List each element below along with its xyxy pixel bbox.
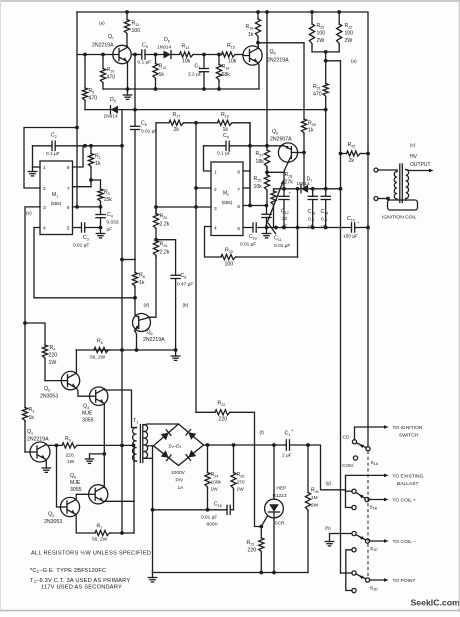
svg-text:R12: R12 [159,64,167,70]
wire Q4 emitter down [103,403,105,454]
svg-text:R6: R6 [65,436,71,442]
svg-text:1N914: 1N914 [104,114,118,120]
transistor Q5 MJE3055 [89,485,108,504]
wire R22b right down to gate [231,412,261,526]
svg-text:470: 470 [313,92,322,98]
wire D7 bus left segment [274,188,302,190]
svg-text:D5: D5 [110,97,116,103]
svg-text:1N914: 1N914 [297,181,310,186]
svg-text:R1: R1 [95,154,101,160]
svg-text:1: 1 [43,165,46,171]
svg-text:100: 100 [132,28,141,34]
svg-text:R13: R13 [182,44,190,50]
svg-text:4: 4 [214,226,217,232]
svg-text:T1–6.3V C.T. 3A USED AS PRIMAR: T1–6.3V C.T. 3A USED AS PRIMARY [30,578,130,584]
svg-text:Q7: Q7 [108,34,114,40]
svg-text:2N2219A: 2N2219A [143,337,165,343]
wire Q8 emitter down to ground bus [257,63,260,89]
svg-text:0.033: 0.033 [107,220,119,226]
resistor R27 18k [264,150,269,168]
svg-text:1W: 1W [237,487,245,493]
svg-text:56, 2W: 56, 2W [90,355,106,361]
wire Q6 collector to R19 [150,258,156,317]
svg-text:(a): (a) [99,21,105,26]
svg-text:C2: C2 [51,133,57,139]
svg-text:*: * [292,429,294,435]
resistor R23b 220 (gate) [260,527,262,539]
svg-text:0.01 µF: 0.01 µF [274,243,290,249]
svg-text:R1223: R1223 [273,493,287,499]
wire D6 to R13 [171,54,180,56]
diode D2 (bridge upper-left) [161,433,169,441]
resistor R7 56 2W [95,530,111,535]
wire Q5 collector entry [103,486,105,488]
capacitor C8 0.47uF [171,274,180,276]
diode D4 (bridge lower-left) [161,450,169,458]
svg-text:T1: T1 [133,418,138,424]
ground M1 pin 1 [32,167,34,172]
wire link to x=340.5 vertical [326,60,341,62]
switch S1C [365,539,369,543]
svg-text:1A: 1A [178,485,185,491]
wire to coil- arrow [370,540,385,542]
wire C5 to D6 [145,54,164,56]
svg-text:600V: 600V [207,522,219,528]
wire DC- rail y=509.8 [153,509,228,511]
svg-text:(f): (f) [260,430,265,435]
resistor R25 2k [341,153,347,155]
ground tap on Q4 emitter [90,454,105,459]
resistor R11 100 [126,12,128,20]
svg-text:470: 470 [107,75,116,81]
resistor R19 2.2k [153,241,158,257]
svg-text:R23: R23 [247,540,255,546]
svg-text:3: 3 [214,206,217,212]
wire M1 pin6 stub [73,206,101,208]
capacitor C13 0.1uF [312,189,314,197]
svg-text:100: 100 [345,31,354,37]
svg-text:2: 2 [43,186,46,192]
capacitor C1* 2uF [285,440,287,450]
wire C3 to C4 node [85,227,101,229]
resistor R23 100 [221,254,237,259]
svg-text:1k: 1k [248,32,254,38]
svg-text:R17: R17 [173,112,181,118]
svg-text:R16: R16 [246,24,254,30]
svg-text:1k: 1k [29,415,35,421]
svg-text:1W: 1W [49,360,57,366]
svg-text:1: 1 [214,170,217,176]
wire to coil+ arrow [369,499,385,501]
wire R4 to Q2 base [45,380,61,382]
svg-text:7: 7 [67,186,70,192]
svg-text:(c): (c) [410,143,416,148]
svg-text:TO EXISTING: TO EXISTING [393,474,424,480]
svg-text:S1A: S1A [371,460,379,466]
wire M2 pin2 net x=196 [195,123,197,413]
capacitor C15 150uF [351,223,353,232]
svg-text:C7: C7 [195,64,201,70]
wire Q9 collector drop [283,170,285,189]
svg-text:68k: 68k [222,72,231,78]
svg-text:R5: R5 [97,339,103,345]
svg-text:0.47 µF: 0.47 µF [177,282,193,288]
svg-text:S1B: S1B [370,505,378,511]
resistor R21 470 [325,61,327,84]
wire C2 left to M1 pin1/ground [32,146,34,167]
resistor R22b 220 [215,410,231,415]
svg-text:(555): (555) [51,201,62,206]
svg-text:ALL RESISTORS ½W UNLESS SPECIF: ALL RESISTORS ½W UNLESS SPECIFIED [31,550,151,557]
wire long vertical x=122 [121,110,123,533]
wire R7 right to T1 primary bottom riser [111,532,135,534]
wire R8 bottom to Q6 base [134,298,136,314]
svg-text:TO COIL −: TO COIL − [393,539,417,545]
capacitor C5 0.1uF [131,54,142,56]
svg-text:R20: R20 [160,214,168,220]
svg-text:6: 6 [237,204,240,210]
svg-text:(g): (g) [326,481,332,486]
svg-text:2N2219A: 2N2219A [92,43,114,49]
svg-text:100k: 100k [211,480,222,486]
ignition coil terminal top [374,168,378,172]
svg-text:+: + [357,220,360,225]
wire Q9 base to R29 node [298,152,304,154]
svg-text:8: 8 [237,170,240,176]
svg-text:6: 6 [67,205,70,211]
wire T1 secondary tap to bridge left [147,445,154,447]
transistor Q4 MJE3055 [90,387,108,405]
wire Q8 collector [257,43,259,49]
svg-text:150 µF: 150 µF [343,234,358,240]
wire ground bus y=89 [103,88,259,90]
transistor Q8 2N2219A [243,46,262,65]
svg-text:1k: 1k [308,128,314,134]
svg-text:C11: C11 [274,236,282,242]
svg-text:R27: R27 [256,151,264,157]
diode D3 (bridge upper-right) [188,432,196,440]
wire M1 pin5 stub [73,227,82,229]
svg-text:R22: R22 [218,401,226,407]
svg-text:10k: 10k [182,59,191,65]
svg-text:MJE: MJE [82,411,93,417]
wire Q6 emitter bus / R5 run y=350 [76,349,176,351]
svg-text:0.1 µF: 0.1 µF [46,151,60,157]
svg-text:TO IGNITION: TO IGNITION [393,425,423,431]
ground Q6 emitter bus [175,350,177,356]
svg-text:5: 5 [237,226,240,232]
svg-text:R20: R20 [317,23,325,29]
svg-text:(h): (h) [325,526,331,531]
wire C1 right / corner to (g) [290,445,346,490]
svg-text:R11: R11 [132,21,140,27]
resistor R6 220 1W [57,444,63,446]
wire Q4 collector to T1 primary top [105,389,135,428]
wire to point arrow [370,579,385,581]
svg-text:0.1: 0.1 [308,217,315,223]
transistor Q7 2N2219A [113,45,131,63]
resistor R10 470 [102,55,104,69]
wire M2 pin7 stub [243,187,250,189]
svg-text:2: 2 [214,187,217,193]
label C11 with leader [269,224,276,234]
svg-text:2N3053: 2N3053 [44,519,62,525]
wire M1 pin8 stub [73,146,84,167]
wire Q8 collector node to R29 [258,42,304,44]
svg-text:SCR: SCR [275,521,286,527]
wire DC+ bus [204,444,287,446]
svg-text:C1: C1 [285,431,291,437]
svg-text:SeekIC.com: SeekIC.com [411,598,460,608]
svg-text:(e): (e) [26,211,32,216]
wire R6 right run [78,444,134,446]
svg-text:117V USED AS SECONDARY: 117V USED AS SECONDARY [41,585,122,591]
wire R18 to M2 pin8 riser [233,123,250,206]
wire R27/R26 node to collector drop [267,171,284,173]
svg-text:10k: 10k [228,59,237,65]
svg-text:C8: C8 [181,273,187,279]
wire M2 V+ vertical x=267 from top bus [266,12,268,150]
svg-text:R7: R7 [97,524,103,530]
capacitor C16 0.01uF 600V [226,505,228,514]
svg-text:C4: C4 [107,212,113,218]
svg-text:C6: C6 [141,121,147,127]
diode D6 1N914 [164,51,172,59]
svg-text:1k: 1k [139,280,145,286]
capacitor C4 0.033uF [100,207,102,215]
svg-text:220: 220 [49,353,58,359]
wire M1 V+ node y=145.8 [55,145,122,147]
svg-text:0.01 µF: 0.01 µF [201,515,217,521]
svg-text:CD: CD [343,435,350,441]
svg-text:TO POINT: TO POINT [393,578,416,584]
svg-text:D₂–D₅: D₂–D₅ [169,444,182,449]
transformer T1 primary winding [133,427,137,461]
svg-text:220: 220 [248,548,257,554]
svg-text:1k: 1k [159,72,165,78]
svg-text:Q9: Q9 [272,129,278,135]
wire Q1 base [25,451,30,453]
resistor R8 1k [134,260,136,273]
svg-text:M2: M2 [223,191,229,197]
capacitor C14 0.1uF [325,189,327,197]
wire M2 pin8 stub [243,170,250,172]
wire R15 to Q8 base [236,54,243,56]
svg-text:Q6: Q6 [147,330,153,336]
wire R17 to R18 [185,122,218,124]
svg-text:R10: R10 [107,67,115,73]
resistor R2 15k [98,189,103,202]
svg-text:10k: 10k [254,184,263,190]
junction dots M1 area [83,144,87,148]
wire jog x=122 to R8 [122,259,135,261]
resistor R13 10k [180,52,195,57]
resistor R26 270 1W [233,445,235,473]
svg-text:S1C: S1C [370,546,378,552]
wire pin5 bus [256,227,351,229]
capacitor C9 0.1uF [225,141,227,150]
svg-text:Q5: Q5 [70,473,76,479]
svg-text:270: 270 [237,480,245,486]
wire Q3 emitter to R7 [76,514,95,533]
svg-text:1000V: 1000V [171,470,186,476]
wire R23 to x=297.5 riser [237,256,298,258]
svg-text:5: 5 [67,226,70,232]
ground pin5 bus [266,228,268,234]
wire bottom ground bus [153,572,309,574]
diode D7 1N914 [301,185,308,193]
svg-text:2W: 2W [311,503,319,509]
ignition coil body [388,200,418,210]
wire M2 pin6 stub [243,205,267,207]
wire C9 node [204,145,227,147]
capacitor C2 0.1uF [33,145,53,147]
svg-text:R26: R26 [254,176,262,182]
wire top supply bus [77,12,368,447]
wire gate node from R22 drop [196,411,215,413]
capacitor C11 0.01uF [266,206,268,215]
resistor R20 2.2k [155,207,157,214]
svg-text:15k: 15k [104,197,113,203]
svg-text:22: 22 [282,216,288,222]
svg-text:R2: R2 [104,190,110,196]
bridge rectifier D2-D5 outline [154,424,204,466]
svg-text:3055: 3055 [70,487,82,493]
resistor R1 1k [90,146,92,154]
svg-text:2 µF: 2 µF [282,453,292,459]
resistor R20 100 2W [311,12,313,24]
wire M2 pin1 riser to C9 [204,146,212,171]
capacitor C10 0.01uF [252,223,254,232]
wire Q1 collector to R6 [46,444,56,445]
wire x=135 from Q7/C5 node down through C6 [134,55,136,127]
svg-text:2.2k: 2.2k [160,250,170,256]
transistor Q1 2N2219A [30,442,50,462]
wire Q3 collector to Q5 base [76,494,88,499]
svg-text:PIV: PIV [176,478,185,484]
svg-text:R18: R18 [221,112,229,118]
transformer T1 secondary winding [144,425,148,459]
svg-text:1W: 1W [211,487,219,493]
svg-text:(a): (a) [351,59,357,64]
IC M2 555 timer [211,162,243,236]
svg-text:(555): (555) [222,200,233,205]
wire M2 pin3 stub [156,206,211,208]
svg-text:R28: R28 [285,172,293,178]
wire x=341 to S1D upper contact [341,572,352,574]
resistor R5 56 2W [94,347,110,352]
resistor R15 10k [222,52,237,57]
wire (h) ground branch [330,534,352,542]
wire R1 bottom jog to R2 [91,180,101,189]
wire Q2 collector to R5 [75,350,77,373]
svg-text:0.01 µF: 0.01 µF [73,243,89,249]
svg-text:R25: R25 [348,142,356,148]
svg-text:0.1: 0.1 [321,217,328,223]
svg-text:R23: R23 [225,248,233,254]
resistor R14 68k [218,55,220,65]
svg-text:C3: C3 [83,235,89,241]
svg-text:S1D: S1D [370,586,378,592]
wire R29 node down to D7 [303,153,305,187]
svg-text:TO COIL +: TO COIL + [393,498,417,504]
resistor R4 220 1W [42,345,47,359]
wire long vertical x=340.5 [340,61,342,573]
diode D5 1N914 [85,109,111,111]
svg-text:R3: R3 [29,407,35,413]
svg-text:2N2219A: 2N2219A [27,437,49,443]
svg-text:+: + [289,191,292,196]
svg-text:220,: 220, [66,453,75,459]
svg-text:0.01 µF: 0.01 µF [240,242,256,248]
svg-text:R26: R26 [237,472,245,478]
svg-text:7: 7 [237,187,240,193]
wire coil primary leads [378,169,397,171]
resistor R22 100 2W [338,12,340,24]
svg-text:1M: 1M [311,495,318,501]
wire riser x=77 from top bus to M1 pin6 [76,12,78,207]
svg-text:C13: C13 [308,209,316,215]
svg-text:0.1 µF: 0.1 µF [138,60,152,66]
wire R13 to R15 [194,54,222,56]
wire SCR gate [261,516,267,527]
svg-text:OUTPUT: OUTPUT [410,162,431,168]
wire T1 secondary bottom [144,457,153,459]
svg-text:3055: 3055 [82,418,94,424]
svg-text:2N2219A: 2N2219A [267,58,289,64]
svg-text:R21: R21 [313,84,321,90]
wire M2 pin5 stub [243,227,253,229]
svg-text:MJE: MJE [70,480,81,486]
svg-text:C14: C14 [321,209,329,215]
svg-text:Q8: Q8 [270,49,276,55]
wire R19/R20 node to C8 [156,240,176,276]
wire supply rail y=110 to R21 [118,109,326,111]
capacitor C7 2.2uF [203,55,205,69]
svg-text:BALLAST: BALLAST [397,481,418,487]
resistor R3 1k [22,408,27,422]
svg-text:56, 2W: 56, 2W [92,537,108,543]
svg-text:(d): (d) [144,303,150,308]
svg-text:D6: D6 [164,37,170,43]
svg-text:R8: R8 [139,273,145,279]
wire M2 pin4 loop via R23 [205,227,222,258]
svg-text:IGNITION COIL: IGNITION COIL [382,215,417,221]
wire M1 pin7 stub [73,186,92,188]
svg-text:R22: R22 [345,23,353,29]
svg-text:18k: 18k [256,159,265,165]
ground Q7 emitter [127,89,129,95]
svg-text:R14: R14 [222,64,230,70]
svg-text:0.01 µF: 0.01 µF [141,129,157,135]
wire loop to M1 pin2 [24,128,77,189]
resistor R9 470 [84,55,86,89]
svg-text:2k: 2k [174,127,180,133]
svg-text:27k: 27k [285,180,294,186]
svg-text:HEP: HEP [277,486,287,492]
switch S1A NC contact [353,456,357,460]
IC M1 555 timer [40,161,73,235]
ignition coil core [399,164,401,203]
wire Q7 emitter to ground bus [126,62,128,66]
junction dots top area [125,10,129,14]
ground below C4 [100,228,102,234]
wire riser x=134 T1 primary bottom [133,445,135,533]
wire Q7 base [77,54,113,56]
svg-text:R24: R24 [211,472,219,478]
ignition coil secondary winding [406,170,409,199]
transformer T1 core [139,425,141,463]
